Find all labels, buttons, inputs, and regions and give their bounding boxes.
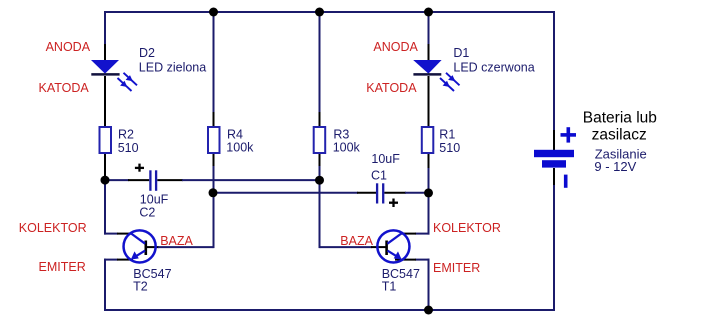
node dot top R3 — [315, 8, 324, 17]
svg-text:510: 510 — [439, 141, 460, 155]
svg-text:510: 510 — [118, 141, 139, 155]
wire branch3 vertical (R3) — [320, 12, 387, 248]
svg-text:Bateria lub: Bateria lub — [583, 110, 657, 127]
node dot R4 bottom / C1 — [209, 188, 218, 197]
svg-text:T1: T1 — [382, 280, 397, 294]
svg-text:ANODA: ANODA — [46, 40, 91, 54]
node dot bottom rail / T1 emitter — [424, 306, 433, 315]
svg-text:100k: 100k — [226, 140, 254, 154]
svg-text:D2: D2 — [139, 46, 155, 60]
svg-text:C1: C1 — [371, 169, 387, 183]
node dot top D1 — [424, 8, 433, 17]
transistor T2 — [124, 230, 156, 262]
svg-text:9 - 12V: 9 - 12V — [594, 159, 636, 174]
svg-text:R1: R1 — [439, 128, 455, 142]
svg-text:100k: 100k — [333, 140, 361, 154]
svg-text:D1: D1 — [453, 46, 469, 60]
wire capacitor C2 row y=180.1 — [105, 179, 320, 181]
svg-text:BAZA: BAZA — [160, 234, 193, 248]
LED D1 — [413, 60, 459, 91]
node dot A (R2/C2/T2 collector) — [101, 176, 110, 185]
svg-text:LED czerwona: LED czerwona — [453, 60, 534, 74]
LED D2 — [91, 60, 137, 91]
svg-text:KATODA: KATODA — [39, 81, 90, 95]
svg-text:T2: T2 — [133, 280, 148, 294]
wire branch5 vertical (battery) — [553, 11, 555, 311]
svg-text:ANODA: ANODA — [373, 40, 418, 54]
resistor R2 — [100, 127, 112, 153]
svg-text:10uF: 10uF — [371, 152, 400, 166]
wire bottom rail — [104, 309, 555, 311]
transistor T1 — [377, 230, 409, 262]
wire top rail — [104, 11, 554, 13]
transistor T2 collector/emitter leads (black parts) — [117, 234, 133, 260]
capacitor C1 — [377, 183, 398, 207]
svg-text:BAZA: BAZA — [340, 234, 373, 248]
node dot R3 bottom / C2 — [315, 176, 324, 185]
svg-text:EMITER: EMITER — [433, 261, 480, 275]
resistor R3 — [314, 127, 326, 153]
svg-text:KATODA: KATODA — [366, 81, 417, 95]
capacitor C2 — [135, 164, 156, 191]
svg-text:zasilacz: zasilacz — [592, 126, 647, 143]
svg-text:EMITER: EMITER — [39, 260, 86, 274]
svg-text:KOLEKTOR: KOLEKTOR — [433, 221, 501, 235]
svg-text:KOLEKTOR: KOLEKTOR — [19, 221, 87, 235]
transistor T1 collector/emitter leads (black parts) — [395, 234, 416, 260]
battery B1 — [534, 127, 576, 188]
wire branch4 vertical (LED D1 / R1 / T1) — [415, 11, 430, 311]
svg-text:R2: R2 — [118, 128, 134, 142]
wire branch1 vertical (LED D2 / R2 / T2) — [104, 11, 118, 311]
resistor R1 — [422, 127, 434, 153]
svg-text:LED zielona: LED zielona — [139, 60, 206, 74]
node dot R1 bottom / C1 — [424, 188, 433, 197]
svg-text:C2: C2 — [139, 205, 155, 219]
resistor R4 — [208, 127, 220, 153]
wire branch2 vertical (R4) — [146, 12, 214, 248]
node dot top R4 — [209, 8, 218, 17]
wire capacitor C1 row y=192.8 — [214, 192, 429, 194]
